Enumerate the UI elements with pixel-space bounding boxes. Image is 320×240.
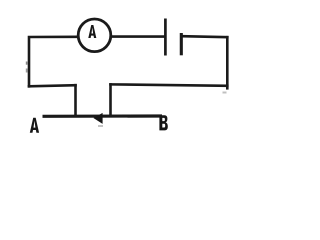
- wire: ammeter to battery positive plate: [111, 35, 165, 38]
- scan speck left vertical lower: [26, 69, 28, 73]
- scan speck near right corner: [223, 92, 227, 94]
- battery positive plate (long): [164, 19, 167, 56]
- node label A: [30, 118, 39, 133]
- battery negative plate (short): [180, 33, 183, 55]
- wire: mid-right horizontal: [111, 84, 228, 85]
- wire: right tap drop to slide wire: [109, 84, 112, 115]
- wire: right side vertical: [226, 37, 229, 88]
- scan speck below arrow: [98, 125, 103, 127]
- arrowhead: current direction toward A: [93, 113, 102, 124]
- wire: slide wire A-B: [43, 114, 163, 118]
- wire: battery negative plate to top-right corner: [183, 36, 228, 37]
- ammeter label A: [88, 25, 96, 38]
- wire: mid-left horizontal: [29, 85, 76, 86]
- ammeter body: [78, 19, 111, 52]
- wire: left tap drop to slide wire: [74, 85, 77, 115]
- node label B: [159, 115, 167, 130]
- scan speck left vertical: [26, 62, 28, 65]
- wire: top-left corner to ammeter: [29, 37, 78, 87]
